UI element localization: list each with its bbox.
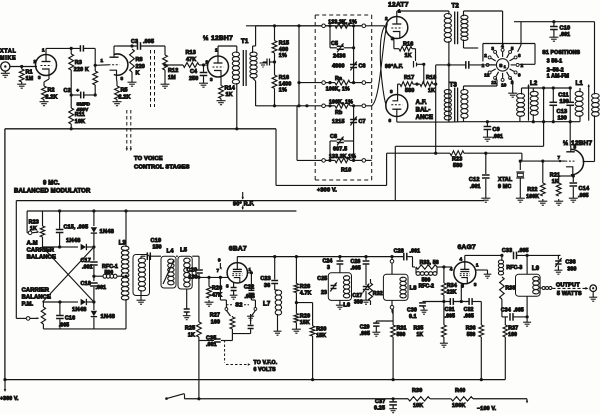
svg-text:47K: 47K <box>186 57 196 63</box>
svg-text:MIKE: MIKE <box>0 56 16 62</box>
svg-text:S1 POSITIONS: S1 POSITIONS <box>542 50 580 56</box>
svg-text:R3: R3 <box>75 60 82 66</box>
svg-text:3: 3 <box>327 265 330 271</box>
svg-text:9 MC: 9 MC <box>498 184 511 190</box>
svg-text:.005: .005 <box>360 331 370 337</box>
svg-text:RFC-3: RFC-3 <box>506 265 522 271</box>
svg-text:R12: R12 <box>168 68 178 74</box>
svg-text:4.7K: 4.7K <box>300 291 312 297</box>
svg-text:R37: R37 <box>508 326 518 332</box>
svg-text:1: 1 <box>101 58 104 63</box>
svg-text:½: ½ <box>203 34 209 42</box>
svg-text:.001: .001 <box>82 265 93 271</box>
svg-text:100K, 1%: 100K, 1% <box>326 87 350 93</box>
svg-text:1%: 1% <box>279 88 287 94</box>
svg-text:CONTROL STAGES: CONTROL STAGES <box>134 165 190 171</box>
svg-text:5: 5 <box>511 46 514 51</box>
svg-text:160: 160 <box>211 320 220 326</box>
svg-text:C13: C13 <box>557 109 568 115</box>
svg-text:12AT7: 12AT7 <box>388 1 409 8</box>
svg-text:R2: R2 <box>48 88 55 94</box>
svg-text:+300 V.: +300 V. <box>0 396 19 402</box>
svg-text:R14: R14 <box>225 86 235 92</box>
svg-text:A.M: A.M <box>27 241 38 247</box>
svg-text:130: 130 <box>189 275 198 281</box>
svg-text:2: 2 <box>34 59 37 64</box>
svg-text:8MFD: 8MFD <box>77 102 91 108</box>
svg-text:R18: R18 <box>426 75 436 81</box>
svg-text:15K: 15K <box>300 320 310 326</box>
svg-text:C19: C19 <box>151 238 162 244</box>
svg-text:TO V.F.O.: TO V.F.O. <box>254 360 278 366</box>
svg-text:8: 8 <box>574 145 577 150</box>
svg-text:220: 220 <box>136 64 145 70</box>
svg-text:220 K: 220 K <box>74 67 89 73</box>
svg-text:R17: R17 <box>404 75 414 81</box>
svg-text:.005: .005 <box>514 308 524 314</box>
svg-text:CARRIER: CARRIER <box>22 288 50 294</box>
svg-text:7: 7 <box>558 155 561 160</box>
svg-text:RFC-2: RFC-2 <box>419 284 435 290</box>
svg-text:90° R.F.: 90° R.F. <box>233 202 254 208</box>
svg-text:XTAL: XTAL <box>498 177 513 183</box>
svg-text:12BH7: 12BH7 <box>211 35 233 42</box>
svg-text:10: 10 <box>501 82 507 87</box>
svg-text:1M: 1M <box>168 75 176 81</box>
svg-text:C36: C36 <box>565 260 575 266</box>
svg-text:C10: C10 <box>560 26 571 32</box>
svg-text:2436: 2436 <box>333 54 346 60</box>
svg-text:560: 560 <box>397 332 406 338</box>
svg-text:R39: R39 <box>412 388 422 394</box>
svg-text:1K: 1K <box>552 179 559 185</box>
svg-text:R13: R13 <box>186 50 196 56</box>
svg-text:XTAL: XTAL <box>0 49 16 55</box>
svg-text:C11: C11 <box>558 93 568 99</box>
svg-text:.001: .001 <box>206 342 217 348</box>
svg-text:3: 3 <box>226 284 229 289</box>
svg-text:1N48: 1N48 <box>72 307 87 313</box>
svg-text:3: 3 <box>210 77 213 82</box>
svg-text:.005: .005 <box>464 314 474 320</box>
svg-text:4: 4 <box>450 267 453 272</box>
svg-text:R28: R28 <box>300 284 310 290</box>
svg-text:607.5: 607.5 <box>333 147 347 153</box>
svg-text:580: 580 <box>405 88 414 94</box>
svg-text:C9: C9 <box>492 127 499 133</box>
svg-text:L1: L1 <box>576 81 584 87</box>
svg-text:1: 1 <box>504 65 506 69</box>
svg-text:.001: .001 <box>492 134 503 140</box>
svg-text:6 VOLTS: 6 VOLTS <box>254 367 277 373</box>
svg-text:2: 2 <box>521 63 524 68</box>
svg-text:1K: 1K <box>417 332 424 338</box>
svg-text:C37: C37 <box>375 399 385 405</box>
svg-text:C17: C17 <box>81 258 91 264</box>
svg-text:R35: R35 <box>414 326 424 332</box>
svg-text:100K: 100K <box>452 403 466 409</box>
svg-text:R31: R31 <box>397 326 407 332</box>
svg-text:3: 3 <box>491 46 494 51</box>
svg-text:9 MC.: 9 MC. <box>43 181 60 187</box>
svg-text:C15, .005: C15, .005 <box>64 225 89 231</box>
svg-text:R40: R40 <box>455 388 465 394</box>
svg-text:Rb: Rb <box>335 110 343 116</box>
svg-text:C30: C30 <box>407 308 417 314</box>
svg-text:L9: L9 <box>532 266 540 272</box>
svg-text:1N48: 1N48 <box>100 229 115 235</box>
svg-text:R38: R38 <box>505 286 515 292</box>
svg-text:K: K <box>136 71 140 77</box>
svg-text:BALANCED MODULATOR: BALANCED MODULATOR <box>14 189 91 195</box>
svg-text:1%: 1% <box>279 53 287 59</box>
svg-text:C12: C12 <box>469 177 480 183</box>
svg-text:R15: R15 <box>279 41 289 47</box>
svg-text:C8: C8 <box>330 134 337 140</box>
svg-text:T2: T2 <box>452 3 460 10</box>
svg-text:R1: R1 <box>26 70 33 76</box>
svg-text:R25: R25 <box>185 326 195 332</box>
svg-text:C26: C26 <box>351 259 361 265</box>
svg-text:L7: L7 <box>263 302 271 308</box>
svg-text:.001: .001 <box>410 249 421 255</box>
svg-text:−100 V.: −100 V. <box>477 406 497 412</box>
svg-text:OUTPUT: OUTPUT <box>556 283 580 289</box>
svg-text:1: 1 <box>482 63 485 68</box>
svg-text:P.M.: P.M. <box>22 302 34 308</box>
svg-text:6: 6 <box>389 118 392 123</box>
svg-text:6: 6 <box>518 53 521 58</box>
svg-text:R8: R8 <box>136 57 143 63</box>
svg-text:5 WATTS: 5 WATTS <box>557 291 582 297</box>
svg-text:2.2K: 2.2K <box>46 95 58 101</box>
svg-text:1M: 1M <box>26 76 34 82</box>
svg-text:7: 7 <box>217 268 220 273</box>
svg-text:6BA7: 6BA7 <box>229 246 247 253</box>
svg-text:11: 11 <box>491 80 496 85</box>
svg-text:15K: 15K <box>316 333 326 339</box>
svg-text:1 AM-FM: 1 AM-FM <box>547 74 569 80</box>
svg-text:C7: C7 <box>359 119 366 125</box>
svg-text:3 56-1: 3 56-1 <box>547 59 563 65</box>
svg-text:.001: .001 <box>96 285 107 291</box>
svg-text:2.2K: 2.2K <box>119 95 131 101</box>
svg-text:R30: R30 <box>316 327 326 333</box>
svg-text:C33: C33 <box>502 248 512 254</box>
svg-text:90°A.F.: 90°A.F. <box>385 64 404 70</box>
svg-text:8: 8 <box>390 89 393 94</box>
svg-text:S2: S2 <box>235 303 242 309</box>
svg-text:6AG7: 6AG7 <box>458 244 476 251</box>
svg-text:C2: C2 <box>64 88 71 94</box>
svg-text:1: 1 <box>42 48 45 53</box>
svg-text:250: 250 <box>189 76 198 82</box>
svg-text:R36: R36 <box>466 326 476 332</box>
svg-text:1K: 1K <box>428 88 435 94</box>
svg-text:R23: R23 <box>452 157 462 163</box>
svg-text:1K: 1K <box>405 53 412 59</box>
svg-text:C25: C25 <box>317 276 327 282</box>
svg-text:ANCE: ANCE <box>416 115 434 121</box>
svg-text:1215: 1215 <box>332 119 345 125</box>
svg-text:8: 8 <box>121 76 124 81</box>
svg-text:1K: 1K <box>188 333 195 339</box>
svg-text:0.1: 0.1 <box>409 314 417 320</box>
svg-text:9: 9 <box>218 258 221 263</box>
svg-text:10K: 10K <box>413 403 423 409</box>
svg-text:0.25: 0.25 <box>374 406 385 412</box>
svg-text:100K: 100K <box>526 194 539 200</box>
svg-text:3: 3 <box>474 282 477 287</box>
svg-text:380: 380 <box>567 267 576 273</box>
svg-text:1N48: 1N48 <box>66 238 81 244</box>
svg-text:C22: C22 <box>244 285 254 291</box>
svg-text:L4: L4 <box>167 249 175 255</box>
svg-text:R16: R16 <box>403 42 413 48</box>
svg-text:.005: .005 <box>143 39 154 45</box>
svg-text:T3: T3 <box>450 82 458 89</box>
svg-text:.001: .001 <box>560 32 571 38</box>
svg-text:L2: L2 <box>530 81 538 87</box>
svg-text:R34: R34 <box>447 283 457 289</box>
svg-text:C29: C29 <box>360 325 370 331</box>
svg-text:R21: R21 <box>550 173 560 179</box>
svg-text:2: 2 <box>385 16 388 21</box>
svg-text:1: 1 <box>476 263 479 268</box>
svg-text:R27: R27 <box>210 313 220 319</box>
svg-text:C4: C4 <box>190 69 197 75</box>
svg-text:C18: C18 <box>81 281 91 287</box>
svg-text:L6: L6 <box>343 303 351 309</box>
svg-text:L5: L5 <box>180 248 188 254</box>
svg-text:3: 3 <box>38 75 41 80</box>
svg-text:10K: 10K <box>75 119 85 125</box>
svg-text:R29: R29 <box>300 314 310 320</box>
svg-text:C20: C20 <box>187 268 198 274</box>
svg-text:36: 36 <box>264 283 270 289</box>
svg-text:1K: 1K <box>30 226 37 232</box>
svg-text:CARRIER: CARRIER <box>27 248 55 254</box>
svg-text:.005: .005 <box>245 294 255 300</box>
svg-text:BALANCE: BALANCE <box>22 295 51 301</box>
svg-text:580: 580 <box>467 332 476 338</box>
svg-text:2: 2 <box>484 53 487 58</box>
svg-text:C5: C5 <box>331 41 338 47</box>
svg-text:C31: C31 <box>445 307 455 313</box>
svg-text:.001: .001 <box>470 184 481 190</box>
svg-text:C24: C24 <box>323 259 333 265</box>
svg-text:R11: R11 <box>75 112 85 118</box>
svg-text:4860: 4860 <box>332 64 345 70</box>
svg-text:C34: C34 <box>501 308 511 314</box>
svg-text:23: 23 <box>321 290 327 296</box>
svg-text:A.F.: A.F. <box>416 100 427 106</box>
svg-text:590: 590 <box>105 270 114 276</box>
svg-text:R16: R16 <box>279 75 289 81</box>
svg-text:C28: C28 <box>394 249 404 255</box>
svg-text:1K: 1K <box>226 92 233 98</box>
svg-text:22K: 22K <box>447 290 457 296</box>
svg-text:TO VOICE: TO VOICE <box>134 156 163 162</box>
svg-text:.005: .005 <box>351 266 361 272</box>
svg-text:+: + <box>76 89 79 94</box>
svg-text:R23: R23 <box>29 220 39 226</box>
svg-text:C14: C14 <box>579 186 590 192</box>
svg-text:4: 4 <box>460 257 463 262</box>
svg-text:580: 580 <box>453 163 462 169</box>
svg-text:2: 2 <box>206 60 209 65</box>
svg-text:R32: R32 <box>373 291 383 297</box>
svg-text:L8: L8 <box>410 286 418 292</box>
svg-text:.005: .005 <box>578 193 589 199</box>
svg-text:C32: C32 <box>464 307 474 313</box>
svg-text:1N48: 1N48 <box>101 314 116 320</box>
svg-text:C23: C23 <box>260 276 270 282</box>
svg-text:½: ½ <box>563 140 568 147</box>
svg-text:C35: C35 <box>206 336 216 342</box>
svg-text:380: 380 <box>354 300 363 306</box>
svg-text:.005: .005 <box>518 248 529 254</box>
svg-text:C27: C27 <box>352 293 362 299</box>
svg-text:150: 150 <box>153 245 162 251</box>
svg-text:R10: R10 <box>341 168 351 174</box>
svg-text:100: 100 <box>508 332 517 338</box>
svg-text:.005: .005 <box>445 314 455 320</box>
svg-text:9: 9 <box>518 73 521 78</box>
svg-text:R5: R5 <box>121 88 128 94</box>
svg-text:12: 12 <box>484 73 490 78</box>
svg-text:R22: R22 <box>527 187 537 193</box>
svg-text:130: 130 <box>558 116 567 122</box>
svg-text:.005: .005 <box>59 323 69 329</box>
svg-text:BAL-: BAL- <box>416 108 431 114</box>
svg-text:C6: C6 <box>359 64 366 70</box>
svg-text:+300 V.: +300 V. <box>317 188 337 194</box>
svg-text:T1: T1 <box>241 38 249 45</box>
svg-text:C16: C16 <box>65 316 75 322</box>
